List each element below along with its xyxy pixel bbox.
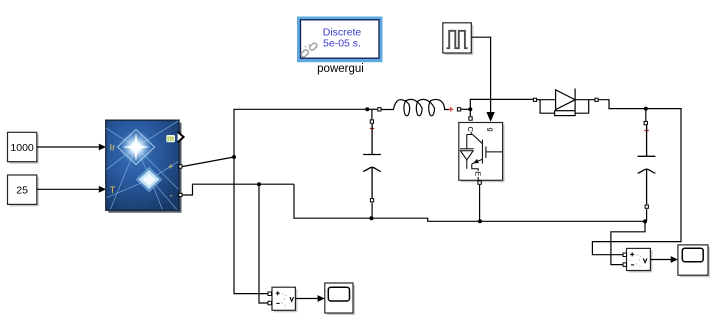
inductor L right port square bbox=[457, 108, 460, 111]
wire stub down to capacitor C1 bbox=[371, 109, 373, 119]
powergui broken link icon bbox=[300, 42, 318, 58]
junction capacitor C1 top node bbox=[365, 107, 369, 111]
diode D snubber resistor bbox=[540, 100, 555, 114]
pulse generator block bbox=[443, 23, 474, 55]
wire node B down to voltage measurement VM1 - input bbox=[259, 184, 268, 303]
VM2 - port square bbox=[623, 263, 627, 267]
panel diagonal lines bbox=[106, 121, 179, 211]
upper glare star bbox=[118, 130, 155, 165]
wire C2 top node right and down to VM2 + input bbox=[592, 109, 681, 255]
wire PV + output diagonal to node A bbox=[183, 157, 234, 167]
PV array block bbox=[106, 120, 184, 213]
wire diode cathode to capacitor C2 top node bbox=[599, 100, 646, 109]
capacitor C1 bottom port square bbox=[370, 199, 373, 202]
capacitor C2 bottom port square bbox=[645, 205, 648, 208]
PV - output port square bbox=[179, 193, 182, 196]
svg-text:E: E bbox=[474, 171, 483, 176]
wire rail junction to VM2 - input bbox=[611, 221, 645, 264]
svg-text:-: - bbox=[170, 191, 173, 202]
junction node A on + net bbox=[232, 155, 236, 159]
wire PV - output to node B bbox=[183, 184, 294, 195]
junction bottom rail right end bbox=[643, 219, 647, 223]
powergui block bbox=[297, 17, 383, 63]
capacitor C1 top port square bbox=[370, 120, 373, 123]
wire inductor to IGBT collector node bbox=[461, 108, 470, 110]
svg-text:1000: 1000 bbox=[10, 142, 34, 154]
inductor L left port square bbox=[378, 108, 381, 111]
svg-text:25: 25 bbox=[16, 184, 28, 196]
IGBT internal symbol bbox=[460, 132, 503, 181]
capacitor C2 polarity + mark bbox=[644, 128, 649, 133]
diode D body bbox=[537, 89, 595, 116]
svg-text:+: + bbox=[168, 162, 174, 173]
IGBT block bbox=[459, 123, 505, 183]
VM1 + port square bbox=[268, 292, 272, 296]
scope1 block bbox=[325, 283, 355, 315]
wire node down to IGBT C port bbox=[469, 109, 471, 116]
wire pulse generator to IGBT gate bbox=[471, 37, 495, 122]
wire VM2 output to scope2 bbox=[650, 256, 678, 263]
wire capacitor C2 bottom to rail junction bbox=[646, 209, 648, 221]
pulse waveform icon bbox=[447, 31, 468, 48]
junction node B on - net bbox=[257, 182, 261, 186]
wire Constant2 to PV T input bbox=[37, 186, 106, 193]
IGBT internal diode bbox=[466, 135, 468, 149]
voltage measurement VM1 block bbox=[272, 287, 297, 312]
wire IGBT E to bottom rail bbox=[479, 185, 481, 221]
wire node A down to voltage measurement VM1 + input bbox=[234, 157, 268, 294]
inductor L polarity + mark bbox=[449, 107, 454, 112]
PV + output port square bbox=[179, 165, 182, 168]
svg-text:T: T bbox=[110, 185, 116, 196]
wire capacitor C1 bottom to rail bbox=[371, 203, 373, 219]
svg-text:5e-05 s.: 5e-05 s. bbox=[323, 38, 361, 50]
wire C2 top node down to capacitor C2 bbox=[645, 109, 647, 121]
diode D right port square bbox=[595, 98, 598, 101]
svg-text:Ir: Ir bbox=[110, 143, 116, 154]
junction capacitor C1 bottom on rail bbox=[369, 216, 373, 220]
IGBT E port square bbox=[478, 181, 481, 184]
VM2 + port square bbox=[623, 253, 627, 257]
wire node A up and right to inductor (top + rail) bbox=[234, 109, 367, 157]
wire Constant1 to PV Ir input bbox=[37, 144, 106, 151]
lower diamond glint bbox=[136, 167, 163, 193]
junction capacitor C2 top node bbox=[644, 107, 648, 111]
capacitor C2 top port square bbox=[644, 121, 647, 124]
IGBT pin label E bbox=[474, 171, 483, 177]
wire junction to inductor left port bbox=[367, 108, 377, 110]
voltage measurement VM2 block bbox=[627, 248, 653, 272]
svg-text:g: g bbox=[486, 128, 495, 132]
IGBT C port square bbox=[469, 117, 472, 120]
capacitor C1 body bbox=[363, 124, 381, 198]
constant block Constant1 value 1000 bbox=[8, 132, 39, 163]
constant block Constant2 value 25 bbox=[8, 175, 39, 206]
svg-text:C: C bbox=[466, 126, 475, 132]
svg-text:m: m bbox=[167, 134, 174, 143]
PV m output chevron port bbox=[178, 132, 184, 143]
scope2 block bbox=[678, 245, 710, 277]
svg-text:powergui: powergui bbox=[317, 63, 364, 75]
diode D left port square bbox=[533, 98, 536, 101]
junction IGBT collector node bbox=[468, 107, 472, 111]
capacitor C1 polarity + mark bbox=[370, 126, 375, 131]
wire VM1 output to scope1 bbox=[295, 295, 324, 302]
VM1 - port square bbox=[268, 301, 272, 305]
wire collector node up and right to diode anode bbox=[470, 99, 533, 109]
wire - net down to bottom rail bbox=[294, 184, 645, 221]
inductor L coil bbox=[382, 99, 450, 115]
PV m signal tag bbox=[166, 135, 175, 142]
IGBT emitter arrowhead bbox=[473, 159, 479, 163]
capacitor C2 body bbox=[638, 125, 656, 204]
junction IGBT emitter on rail bbox=[478, 219, 482, 223]
